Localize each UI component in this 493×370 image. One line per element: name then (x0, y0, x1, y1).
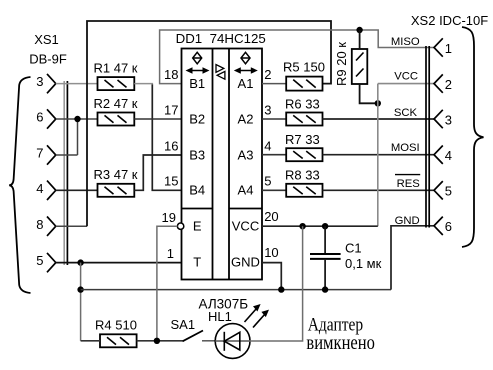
resistor R9 20k (vertical) (334, 42, 367, 86)
connector XS2 pin 5 (434, 181, 443, 199)
wire HL1 to VCC riser (249, 226, 302, 341)
svg-text:0,1 мк: 0,1 мк (345, 256, 382, 271)
svg-text:A3: A3 (238, 147, 254, 162)
svg-text:2: 2 (264, 67, 271, 82)
junction pin6/pin7 (74, 116, 80, 122)
wire pin5 drop to R4 (81, 340, 100, 342)
svg-text:VCC: VCC (232, 219, 259, 234)
svg-text:15: 15 (164, 174, 178, 189)
svg-text:1: 1 (445, 41, 452, 56)
junction E net / SA1 (154, 338, 160, 344)
resistor R1 47k (94, 61, 138, 91)
svg-text:18: 18 (164, 67, 178, 82)
resistor R2 47k (94, 96, 138, 126)
svg-text:4: 4 (445, 148, 452, 163)
svg-text:XS2 IDC-10F: XS2 IDC-10F (411, 13, 488, 28)
svg-text:SA1: SA1 (171, 317, 196, 332)
junction C1 top (322, 223, 328, 229)
wire A3 to R7 (262, 154, 286, 156)
svg-text:B2: B2 (189, 111, 205, 126)
svg-text:17: 17 (164, 102, 178, 117)
svg-text:DB-9F: DB-9F (29, 51, 67, 66)
svg-text:GND: GND (395, 215, 420, 227)
wire R3 to B3 (pin 16) (134, 155, 181, 190)
wire A1 to R5 (262, 83, 286, 85)
svg-text:3: 3 (36, 74, 43, 89)
junction gnd rail left (77, 286, 83, 292)
svg-text:3: 3 (264, 102, 271, 117)
wire pin8 stub (56, 225, 87, 227)
wire A4 to R8 (262, 189, 286, 191)
symbol arrow A (236, 70, 255, 72)
wire GND rail up to XS2 pin6 (391, 226, 434, 290)
svg-text:GND: GND (231, 255, 260, 270)
svg-text:8: 8 (36, 217, 43, 232)
wire VCC to XS2 pin2 (378, 83, 434, 85)
svg-text:6: 6 (36, 110, 43, 125)
wire R2 to B2 (pin 17) (134, 118, 181, 120)
wire pin7 stub (56, 154, 78, 156)
svg-text:4: 4 (36, 181, 43, 196)
resistor R6 33 (285, 96, 323, 125)
connector XS2 brace (462, 27, 484, 247)
symbol bidirectional triangles (216, 65, 224, 73)
svg-text:DD1 74HC125: DD1 74HC125 (176, 31, 266, 46)
wire pin6-pin7 vertical (77, 119, 79, 155)
svg-text:5: 5 (264, 174, 271, 189)
symbol diamond A (241, 52, 250, 64)
divider between buffers and control (182, 208, 213, 210)
wire VCC vertical (377, 84, 379, 227)
junction C1 bottom (322, 286, 328, 292)
svg-text:1: 1 (167, 246, 174, 261)
connector XS2 pin 3 (434, 110, 443, 128)
svg-text:3: 3 (445, 112, 452, 127)
connector XS1 body double lines (63, 81, 65, 265)
svg-text:B1: B1 (189, 76, 205, 91)
wire RES row to XS2 pin5 (323, 189, 435, 191)
wire R1 to B4 (pin 15) (134, 83, 153, 85)
wire SA1 to HL1 (202, 340, 215, 342)
svg-text:A4: A4 (238, 183, 254, 198)
svg-text:7: 7 (36, 146, 43, 161)
resistor R8 33 (285, 168, 323, 197)
svg-text:6: 6 (445, 219, 452, 234)
wire R9 top lead (359, 30, 361, 49)
svg-text:C1: C1 (345, 240, 362, 255)
svg-text:4: 4 (264, 138, 271, 153)
connector XS2 pin 1 (434, 38, 443, 56)
capacitor C1 (310, 226, 382, 289)
svg-text:B3: B3 (189, 147, 205, 162)
svg-text:HL1: HL1 (208, 309, 232, 324)
wire R4 to SA1 (137, 340, 183, 342)
svg-text:R4 510: R4 510 (95, 318, 137, 333)
junction LED riser (299, 223, 305, 229)
junction R9 top on MISO (356, 27, 362, 33)
junction pin5 (77, 259, 83, 265)
connector XS2 body double lines (425, 46, 427, 228)
symbol arrow B (188, 70, 207, 72)
resistor R5 150 (283, 59, 325, 90)
connector XS2 pin 6 (434, 217, 443, 235)
svg-text:10: 10 (264, 245, 278, 260)
IC DD1 74HC125 (176, 31, 266, 279)
svg-text:A1: A1 (238, 76, 254, 91)
svg-text:5: 5 (36, 253, 43, 268)
wire pin5 drop (80, 263, 82, 341)
resistor R7 33 (285, 132, 323, 161)
wire pin8 up to top (87, 21, 331, 226)
svg-text:20: 20 (264, 209, 278, 224)
junction R9/VCC (375, 100, 381, 106)
wire GND pin10 (262, 263, 281, 290)
switch SA1 (171, 317, 204, 341)
svg-text:XS1: XS1 (34, 32, 59, 47)
wire pin6 to R2 (56, 118, 98, 120)
svg-text:вимкнено: вимкнено (306, 332, 375, 354)
svg-text:19: 19 (162, 210, 176, 225)
resistor R4 510 (95, 318, 137, 348)
svg-text:MOSI: MOSI (391, 142, 420, 154)
svg-text:2: 2 (445, 77, 452, 92)
LED HL1 АЛ307Б (199, 296, 269, 358)
wire pin5 to T (56, 262, 182, 264)
svg-text:A2: A2 (238, 111, 254, 126)
svg-text:R7 33: R7 33 (285, 132, 320, 147)
resistor R3 47k (94, 167, 138, 197)
wire R9 bottom lead to VCC net (360, 84, 378, 103)
svg-text:R3 47 к: R3 47 к (94, 167, 138, 182)
svg-text:R6 33: R6 33 (285, 96, 320, 111)
svg-text:R8 33: R8 33 (285, 168, 320, 183)
svg-text:5: 5 (445, 184, 452, 199)
svg-text:R2 47 к: R2 47 к (94, 96, 138, 111)
wire MOSI row to XS2 pin4 (323, 154, 435, 156)
connector XS2 pin 4 (434, 146, 443, 164)
connector XS2 pin 2 (434, 74, 443, 92)
svg-text:SCK: SCK (394, 107, 418, 119)
svg-text:R9 20 к: R9 20 к (334, 42, 349, 86)
symbol diamond B (193, 52, 202, 64)
pin bubble E (pin 19) (177, 223, 183, 229)
junction GND pin10 (278, 286, 284, 292)
svg-text:MISO: MISO (391, 36, 420, 48)
svg-text:R1 47 к: R1 47 к (94, 61, 138, 76)
wire pin4 to R3 (56, 189, 98, 191)
svg-text:RES: RES (397, 178, 421, 190)
wire SCK row to XS2 pin3 (323, 118, 435, 120)
wire E pin to switch junction (157, 226, 178, 341)
svg-text:R5 150: R5 150 (283, 59, 325, 74)
wire A2 to R6 (262, 118, 286, 120)
wire pin3 to R1 (56, 83, 98, 85)
svg-text:T: T (193, 255, 201, 270)
svg-text:VCC: VCC (394, 70, 418, 82)
wire MISO: pin18 up over IC to XS2 pin1 (160, 30, 434, 84)
connector XS1 brace (9, 77, 30, 293)
svg-text:B4: B4 (189, 183, 205, 198)
svg-text:E: E (193, 219, 202, 234)
svg-text:16: 16 (164, 138, 178, 153)
op: outer body (182, 49, 263, 280)
LED emission arrows (245, 309, 257, 323)
wire gnd rail (81, 289, 391, 291)
wire VCC pin20 row (262, 225, 378, 227)
